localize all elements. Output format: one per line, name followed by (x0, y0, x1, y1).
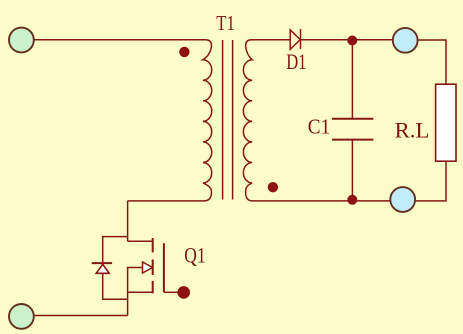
svg-text:Q1: Q1 (184, 242, 205, 267)
svg-text:D1: D1 (286, 49, 306, 74)
svg-text:T1: T1 (216, 11, 235, 35)
svg-text:C1: C1 (308, 115, 330, 139)
svg-text:R.L: R.L (395, 118, 430, 143)
